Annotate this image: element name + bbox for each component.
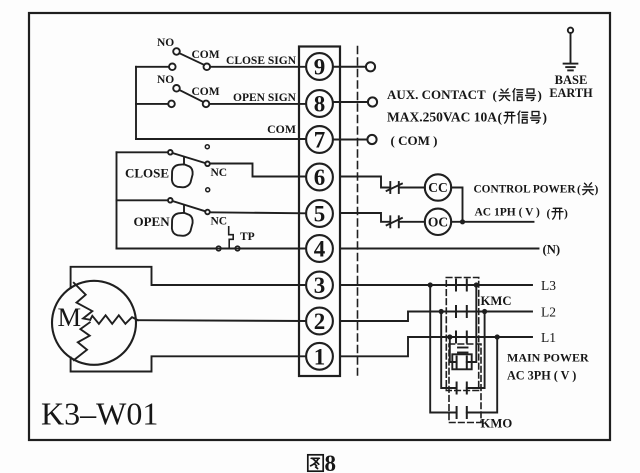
svg-text:3: 3 [314, 273, 326, 298]
svg-text:8: 8 [314, 92, 326, 117]
connector break (CC line) [387, 182, 402, 193]
svg-text:K3–W01: K3–W01 [41, 396, 158, 432]
svg-text:COM: COM [192, 86, 220, 98]
svg-text:6: 6 [314, 165, 326, 190]
wire: KMO feed from L1 [450, 337, 456, 362]
terminal 8 [306, 90, 333, 117]
svg-text:KMO: KMO [481, 417, 513, 431]
svg-text:7: 7 [314, 128, 326, 153]
wire: motor bottom to terminal 1 [71, 356, 306, 371]
coil OC [425, 209, 451, 235]
terminal 1 [306, 343, 333, 370]
svg-text:CLOSE: CLOSE [125, 166, 169, 181]
terminal block body [299, 47, 340, 377]
svg-text:L1: L1 [541, 330, 556, 345]
contact KMO-1 bars (row4) [457, 357, 467, 368]
svg-text:AC 3PH ( V ): AC 3PH ( V ) [507, 369, 576, 383]
cam blob CLOSE [172, 164, 193, 187]
contact KMO-2 bars (row5) [457, 383, 467, 394]
terminal 3 [306, 272, 333, 299]
svg-text:(: ( [547, 208, 551, 220]
svg-text:5: 5 [314, 202, 326, 227]
terminal 7 [306, 126, 333, 153]
svg-text:CONTROL POWER: CONTROL POWER [474, 184, 577, 196]
terminal 9 [306, 53, 333, 80]
svg-text:(N): (N) [543, 243, 561, 257]
node: aux output 7 [333, 135, 377, 144]
label AUX. CONTACT (关信号) [387, 87, 542, 103]
wire: left bus of signal switches [135, 67, 137, 139]
svg-text:): ) [564, 208, 568, 220]
limit switch CLOSE (NC) [117, 150, 210, 166]
svg-text:(: ( [577, 184, 581, 196]
svg-text:NC: NC [211, 216, 228, 228]
svg-text:9: 9 [314, 55, 326, 80]
dashed separation line [357, 47, 359, 376]
wire: break to OC coil [400, 221, 425, 223]
wire: CLOSE NC to terminal 6 [210, 164, 306, 177]
contact KMC-3 bars (L1 row) [456, 332, 467, 343]
terminal 6 [306, 164, 333, 191]
terminal 2 [306, 308, 333, 335]
mechanical link marks [458, 348, 468, 353]
svg-text:(: ( [498, 110, 503, 125]
contactor KMC dashed box [446, 278, 478, 391]
svg-text:OPEN SIGN: OPEN SIGN [233, 92, 297, 104]
contactor KMO dashed box [449, 344, 481, 423]
svg-text:): ) [543, 110, 548, 125]
wire: KMO feed from L2 [441, 312, 456, 389]
winding upper zigzag [74, 283, 93, 320]
svg-text:TP: TP [240, 231, 255, 243]
coil CC [425, 174, 451, 200]
cam blob OPEN [172, 213, 193, 236]
wire: OC junction to right [451, 221, 533, 223]
unconnected NO dot of OPEN switch [206, 188, 210, 192]
svg-text:1: 1 [314, 344, 326, 369]
svg-text:2: 2 [314, 309, 326, 334]
svg-text:OC: OC [428, 214, 448, 229]
terminal 4 [306, 235, 333, 262]
node: L3/KMO tap [428, 282, 433, 287]
svg-text:BASE: BASE [555, 73, 588, 87]
wire: terminal 5 to OC [340, 213, 389, 222]
node: aux output 9 [333, 62, 375, 71]
junction dot CC/OC [460, 219, 465, 224]
svg-text:L2: L2 [541, 305, 556, 320]
unconnected NO dot of CLOSE switch [205, 145, 209, 149]
svg-text:NO: NO [157, 74, 174, 86]
wire: bottom bus to terminal 4 [117, 248, 307, 250]
wire: KMO row4 to L3 out [467, 285, 477, 362]
wire: KMO feed from L3 [430, 285, 456, 413]
wire: OPEN NC to terminal 5 [210, 212, 306, 213]
thermal protector TP [216, 227, 240, 251]
node: L1/KMO tap [447, 334, 452, 339]
svg-text:8: 8 [325, 451, 337, 473]
interlock box [452, 354, 471, 369]
svg-text:KMC: KMC [481, 294, 512, 308]
svg-text:CLOSE SIGN: CLOSE SIGN [226, 55, 297, 67]
label AC 1PH (V) (开) [475, 207, 569, 221]
svg-text:M: M [58, 302, 82, 332]
svg-text:L3: L3 [541, 278, 556, 293]
svg-text:( COM ): ( COM ) [391, 133, 438, 148]
wire: motor right to terminal 2 [138, 319, 306, 322]
switch S2 open-sign (NO/COM) [136, 85, 306, 107]
svg-text:): ) [538, 88, 542, 103]
node: L3 output junction [474, 282, 479, 287]
limit switch OPEN (NC) [117, 198, 210, 214]
node: aux output 8 [333, 97, 377, 106]
wire: terminal 6 to CC [340, 177, 389, 188]
svg-text:AC 1PH ( V ): AC 1PH ( V ) [475, 207, 541, 219]
contact KMC-1 bars (L3 row) [456, 280, 467, 291]
wire: KMO row5 to L2 out [467, 312, 485, 389]
wire: break to CC coil [400, 187, 425, 189]
wire: terminal 4 to (N) [340, 248, 539, 250]
svg-text:4: 4 [314, 237, 326, 262]
svg-text:CC: CC [428, 180, 448, 195]
label CONTROL POWER (关) [474, 183, 599, 196]
wire L1 row: terminal 1 to L1 [340, 337, 532, 356]
svg-text:EARTH: EARTH [549, 86, 593, 100]
wire: left bus of limit switches [116, 152, 118, 248]
wire: CC to junction [451, 188, 462, 222]
motor M [52, 281, 136, 365]
svg-text:COM: COM [267, 122, 296, 136]
node: L2/KMO tap [439, 309, 444, 314]
svg-text:(: ( [493, 88, 497, 103]
svg-text:NC: NC [211, 167, 228, 179]
wire: COM to terminal 7 [136, 138, 306, 140]
wire: KMO row6 to L1 out [467, 337, 497, 413]
svg-text:NO: NO [157, 37, 174, 49]
winding right zigzag [90, 315, 138, 324]
svg-text:MAIN POWER: MAIN POWER [507, 351, 589, 365]
node: L2 output junction [482, 309, 487, 314]
svg-text:OPEN: OPEN [134, 214, 171, 229]
node: L1 output junction [495, 334, 500, 339]
terminal 5 [306, 200, 333, 227]
wire L2 row: terminal 2 to L2 [340, 312, 532, 322]
wire: motor top to terminal 3 [71, 267, 306, 288]
caption 图8 [308, 451, 336, 473]
label MAX.250VAC 10A(开信号) [387, 110, 547, 126]
connector break (OC line) [387, 216, 402, 227]
svg-text:AUX. CONTACT: AUX. CONTACT [387, 87, 486, 102]
contact KMO-3 bars (row6) [457, 407, 467, 418]
svg-text:MAX.250VAC 10A: MAX.250VAC 10A [387, 110, 497, 125]
winding lower zigzag [74, 322, 90, 360]
wire L3 row: terminal 3 to L3 [340, 284, 532, 286]
svg-text:): ) [595, 184, 599, 196]
contact KMC-2 bars (L2 row) [456, 306, 467, 317]
svg-text:COM: COM [192, 49, 220, 61]
earth electrode terminal [564, 28, 578, 71]
switch S1 close-sign (NO/COM) [136, 48, 306, 70]
